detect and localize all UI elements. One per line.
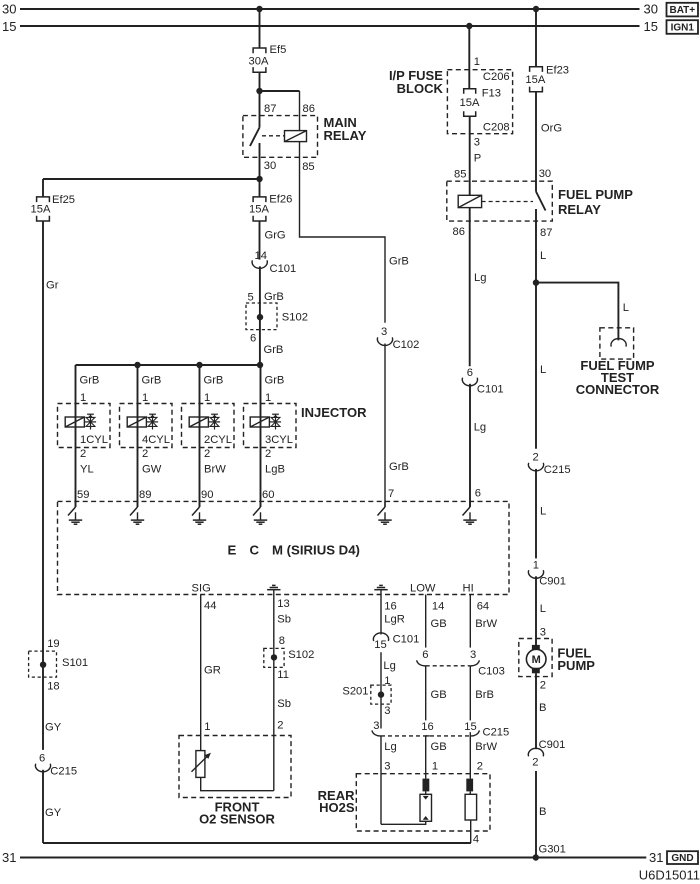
svg-text:59: 59	[77, 489, 89, 501]
main relay coil branch wire	[299, 91, 301, 131]
svg-text:15A: 15A	[525, 74, 545, 86]
svg-text:C101: C101	[477, 383, 504, 395]
svg-text:F13: F13	[482, 87, 501, 99]
svg-text:15A: 15A	[249, 203, 269, 215]
wire to fuse Ef25	[43, 178, 260, 180]
svg-text:1: 1	[142, 392, 148, 404]
wire fuel pump 2 to C901	[535, 673, 537, 749]
svg-text:30: 30	[2, 1, 16, 16]
svg-text:Sb: Sb	[277, 698, 291, 710]
connector C101 pin 6	[462, 378, 477, 386]
wire C215 to rear HO2S (BrW)	[469, 732, 471, 778]
fuse Ef5 30A	[253, 48, 266, 53]
svg-text:1: 1	[80, 392, 86, 404]
injector 3CYL valve	[275, 414, 277, 429]
injector feed bus	[76, 364, 261, 366]
svg-text:3: 3	[474, 136, 480, 148]
svg-text:C103: C103	[478, 666, 505, 678]
wire Ef5 to relay switch	[259, 72, 261, 127]
svg-text:2: 2	[204, 448, 210, 460]
wire relay 30 down	[259, 143, 261, 197]
junction bus15/IP-fuse	[466, 23, 472, 29]
wire C103 to C215 (BrB)	[469, 666, 471, 721]
svg-text:87: 87	[540, 227, 552, 239]
svg-text:15A: 15A	[31, 203, 51, 215]
injector 4CYL drop wire	[137, 365, 139, 507]
svg-text:BrW: BrW	[475, 618, 497, 630]
svg-text:Ef23: Ef23	[546, 65, 569, 77]
injector 1CYL drop wire	[75, 365, 77, 507]
svg-text:U6D15011: U6D15011	[639, 868, 700, 883]
svg-text:L: L	[540, 364, 546, 376]
svg-text:86: 86	[453, 226, 465, 238]
ECM internal ground switch pin 59	[75, 501, 77, 507]
svg-text:GR: GR	[204, 665, 221, 677]
I/P FUSE BLOCK box	[447, 70, 512, 134]
wire C101-15 to S201	[380, 652, 382, 728]
wire Ef25 down to S101	[42, 221, 44, 750]
wire to relay coil pin 86	[260, 90, 300, 92]
svg-text:M (SIRIUS D4): M (SIRIUS D4)	[272, 543, 360, 558]
wire F13 to relay coil	[469, 116, 471, 195]
svg-text:44: 44	[204, 600, 216, 612]
wire relay 87 down	[535, 209, 537, 449]
svg-text:19: 19	[47, 638, 59, 650]
svg-text:PUMP: PUMP	[557, 658, 595, 673]
svg-text:BrW: BrW	[204, 463, 226, 475]
GND tag	[667, 851, 698, 864]
test connector terminal	[611, 339, 626, 347]
injector 4CYL coil	[127, 417, 146, 427]
svg-text:14: 14	[255, 250, 267, 262]
wire ECM 64 to C103	[469, 595, 471, 648]
svg-text:YL: YL	[80, 463, 94, 475]
junction injector 4CYL	[134, 362, 140, 368]
injector 3CYL drop wire	[260, 365, 262, 507]
svg-text:16: 16	[384, 600, 396, 612]
bus 30 (BAT+)	[20, 8, 640, 10]
svg-text:2: 2	[277, 719, 283, 731]
svg-text:RELAY: RELAY	[558, 202, 601, 217]
svg-text:90: 90	[201, 489, 213, 501]
svg-text:87: 87	[264, 103, 276, 115]
svg-text:E: E	[228, 543, 237, 558]
wire relay 85 to C102	[300, 142, 386, 323]
svg-text:P: P	[474, 152, 481, 164]
wire bus30 to fuse Ef5	[259, 9, 261, 48]
svg-text:GrB: GrB	[80, 374, 100, 386]
rear HO2S sensor element	[423, 779, 430, 792]
svg-text:15: 15	[464, 721, 476, 733]
fuel pump relay mech link	[482, 201, 533, 203]
fuel pump relay coil	[458, 195, 481, 207]
svg-text:L: L	[540, 506, 546, 518]
O2 sensor variable resistor	[196, 751, 205, 778]
junction bus30/Ef23	[533, 6, 539, 12]
svg-text:85: 85	[454, 168, 466, 180]
svg-text:L: L	[540, 603, 546, 615]
svg-text:C901: C901	[539, 739, 566, 751]
svg-text:S102: S102	[282, 312, 308, 324]
svg-text:13: 13	[277, 598, 289, 610]
ground G301	[533, 854, 539, 860]
svg-text:G301: G301	[539, 844, 566, 856]
splice S102 lower	[264, 648, 284, 667]
injector 2CYL coil	[189, 417, 208, 427]
svg-text:LgR: LgR	[384, 614, 405, 626]
wire Ef23 to relay switch 30	[535, 92, 537, 192]
svg-text:GrB: GrB	[389, 461, 409, 473]
fuel pump test connector box	[600, 328, 634, 359]
fuse Ef23 15A	[530, 67, 543, 72]
svg-text:Lg: Lg	[474, 272, 486, 284]
svg-text:8: 8	[279, 635, 285, 647]
svg-text:1: 1	[432, 760, 438, 772]
svg-text:LOW: LOW	[410, 582, 436, 594]
svg-text:GY: GY	[45, 807, 62, 819]
svg-text:BLOCK: BLOCK	[397, 81, 444, 96]
splice S101	[29, 651, 57, 677]
ECM internal ground switch pin 90	[199, 501, 201, 507]
svg-text:3: 3	[540, 626, 546, 638]
svg-text:2CYL: 2CYL	[204, 434, 232, 446]
O2 sensor internal wire	[201, 777, 274, 790]
svg-text:GY: GY	[45, 722, 62, 734]
svg-text:C208: C208	[483, 121, 510, 133]
svg-text:LgB: LgB	[265, 463, 285, 475]
wire C215 to C901	[535, 469, 537, 559]
svg-text:Gr: Gr	[46, 280, 59, 292]
main relay box	[243, 116, 318, 158]
svg-text:4CYL: 4CYL	[142, 434, 170, 446]
svg-text:B: B	[539, 806, 546, 818]
svg-text:S201: S201	[342, 685, 368, 697]
svg-text:3: 3	[381, 326, 387, 338]
svg-text:S101: S101	[62, 657, 88, 669]
svg-text:HO2S: HO2S	[319, 800, 355, 815]
svg-text:1: 1	[204, 721, 210, 733]
injector 3CYL coil	[250, 417, 269, 427]
svg-text:1: 1	[474, 56, 480, 68]
rear HO2S internal Lg wire	[381, 821, 426, 824]
svg-text:B: B	[539, 702, 546, 714]
svg-text:Lg: Lg	[383, 660, 395, 672]
ECM internal ground switch pin 60	[260, 501, 262, 507]
svg-text:6: 6	[467, 367, 473, 379]
wire C102 to ECM pin 7	[384, 344, 386, 508]
ECM internal ground pin 13	[272, 584, 276, 586]
svg-text:6: 6	[422, 649, 428, 661]
wire C215 to rear HO2S (Lg)	[380, 736, 382, 824]
IGN1 tag	[667, 20, 699, 34]
wire branch down to Ef25	[42, 179, 44, 197]
wire ECM 14 to C103	[425, 595, 427, 648]
svg-text:GrB: GrB	[389, 256, 409, 268]
injector 2CYL box	[182, 404, 235, 448]
svg-text:BrW: BrW	[475, 741, 497, 753]
svg-text:C901: C901	[539, 575, 566, 587]
svg-text:GrG: GrG	[265, 230, 286, 242]
wire bus30 to fuse Ef23	[535, 9, 537, 67]
junction Ef25 branch	[256, 176, 262, 182]
svg-text:3: 3	[384, 760, 390, 772]
svg-text:5: 5	[248, 292, 254, 304]
svg-text:GB: GB	[431, 741, 447, 753]
wire C215 to bottom	[42, 770, 44, 843]
svg-text:7: 7	[388, 488, 394, 500]
ECM box	[58, 501, 510, 594]
svg-text:2: 2	[532, 756, 538, 768]
svg-text:GrB: GrB	[204, 374, 224, 386]
svg-text:C101: C101	[270, 263, 297, 275]
wire C101 to injector bus	[259, 266, 261, 365]
svg-text:IGN1: IGN1	[671, 22, 695, 33]
svg-text:C101: C101	[393, 634, 420, 646]
svg-text:GrB: GrB	[264, 344, 284, 356]
svg-text:Ef25: Ef25	[52, 194, 75, 206]
bus 15 (IGN1)	[20, 25, 640, 27]
BAT+ tag	[667, 3, 699, 17]
ECM internal ground switch pin 89	[137, 501, 139, 507]
svg-text:1: 1	[265, 392, 271, 404]
svg-text:3: 3	[384, 705, 390, 717]
svg-text:30: 30	[264, 160, 276, 172]
main relay switch blade	[250, 128, 260, 147]
svg-text:60: 60	[262, 489, 274, 501]
svg-text:89: 89	[139, 489, 151, 501]
svg-text:L: L	[623, 302, 629, 314]
svg-text:15: 15	[2, 19, 16, 34]
svg-text:2: 2	[477, 760, 483, 772]
svg-text:2: 2	[533, 452, 539, 464]
svg-text:GrB: GrB	[264, 291, 284, 303]
wire ECM 13 to O2 pin 2	[273, 595, 275, 791]
svg-text:1: 1	[204, 392, 210, 404]
svg-text:C: C	[250, 543, 260, 558]
wire SIG 44 to O2 sensor	[200, 595, 202, 751]
rear HO2S box	[356, 774, 490, 831]
svg-text:2: 2	[80, 448, 86, 460]
svg-text:SIG: SIG	[192, 583, 211, 595]
svg-text:15A: 15A	[460, 97, 480, 109]
svg-text:Ef26: Ef26	[269, 193, 292, 205]
ECM internal ground switch pin 6	[469, 501, 471, 507]
svg-text:L: L	[540, 250, 546, 262]
svg-text:85: 85	[302, 161, 314, 173]
fuel pump relay switch blade	[536, 192, 546, 211]
injector 4CYL valve	[152, 414, 154, 429]
svg-text:6: 6	[39, 752, 45, 764]
injector 3CYL box	[244, 404, 297, 448]
injector 2CYL valve	[214, 414, 216, 429]
svg-text:1: 1	[533, 559, 539, 571]
injector 2CYL drop wire	[199, 365, 201, 507]
svg-text:C102: C102	[393, 339, 420, 351]
front O2 sensor box	[179, 736, 291, 798]
svg-text:Sb: Sb	[277, 614, 291, 626]
wire C901 to fuel pump	[535, 576, 537, 646]
main relay mech link	[262, 135, 284, 137]
connector C101 pin 14	[252, 260, 267, 268]
svg-text:3: 3	[373, 720, 379, 732]
svg-text:3: 3	[470, 649, 476, 661]
junction injector 2CYL	[196, 362, 202, 368]
svg-text:4: 4	[473, 834, 479, 846]
wire ECM 16 to C101	[380, 595, 382, 635]
wire C901 to G301	[535, 771, 537, 858]
injector 1CYL valve	[90, 414, 92, 429]
main relay coil	[285, 131, 307, 142]
svg-text:86: 86	[303, 103, 315, 115]
svg-text:30A: 30A	[249, 56, 269, 68]
junction injector 3CYL	[257, 362, 263, 368]
svg-text:GrB: GrB	[142, 374, 162, 386]
svg-text:GrB: GrB	[265, 374, 285, 386]
svg-text:C206: C206	[483, 71, 510, 83]
svg-text:30: 30	[644, 1, 658, 16]
svg-text:HI: HI	[463, 582, 474, 594]
svg-text:14: 14	[432, 600, 444, 612]
bus 31 (GND)	[20, 857, 646, 859]
wire bus15 to I/P fuse	[468, 26, 470, 89]
svg-text:C215: C215	[50, 766, 77, 778]
splice S201	[371, 685, 391, 704]
fuse Ef26 15A	[253, 197, 266, 202]
svg-text:RELAY: RELAY	[324, 128, 367, 143]
wire coil 86 down to C101	[469, 208, 471, 367]
wire Ef26 to C101	[259, 221, 261, 260]
svg-text:C215: C215	[544, 464, 571, 476]
svg-text:2: 2	[540, 679, 546, 691]
ECM internal ground pin 16	[379, 584, 383, 586]
wire C103 to C215 (GB)	[425, 666, 427, 721]
injector 4CYL box	[120, 404, 173, 448]
svg-text:2: 2	[265, 448, 271, 460]
svg-text:1CYL: 1CYL	[80, 434, 108, 446]
svg-text:M: M	[532, 654, 541, 666]
svg-text:C215: C215	[483, 726, 510, 738]
svg-text:31: 31	[649, 850, 663, 865]
fuel pump relay box	[447, 181, 553, 221]
svg-text:30: 30	[539, 168, 551, 180]
svg-text:GW: GW	[142, 463, 162, 475]
injector 1CYL coil	[65, 417, 84, 427]
svg-text:OrG: OrG	[541, 122, 562, 134]
svg-text:31: 31	[2, 850, 16, 865]
svg-text:2: 2	[142, 448, 148, 460]
svg-text:FUEL PUMP: FUEL PUMP	[558, 187, 633, 202]
svg-text:Lg: Lg	[474, 422, 486, 434]
junction bus30/Ef5	[256, 6, 262, 12]
svg-text:GB: GB	[431, 618, 447, 630]
svg-text:GB: GB	[431, 689, 447, 701]
svg-text:11: 11	[277, 669, 289, 681]
svg-text:15: 15	[374, 639, 386, 651]
connector C901 pin 1	[528, 570, 543, 578]
rear HO2S heater element	[466, 779, 473, 792]
GY return wire to rear HO2S pin 4	[43, 842, 471, 844]
svg-text:Ef5: Ef5	[270, 44, 287, 56]
svg-text:BAT+: BAT+	[669, 5, 695, 16]
injector 1CYL box	[58, 404, 111, 448]
svg-text:S102: S102	[288, 649, 314, 661]
svg-text:6: 6	[250, 333, 256, 345]
svg-text:Lg: Lg	[384, 741, 396, 753]
svg-text:64: 64	[477, 600, 489, 612]
fuel pump motor	[532, 645, 540, 651]
fuel pump box	[519, 639, 552, 677]
svg-text:18: 18	[47, 681, 59, 693]
connector C102 pin 3	[377, 337, 392, 345]
svg-text:GND: GND	[671, 853, 693, 864]
connector C215 pin 2	[528, 463, 543, 471]
wire C215 to rear HO2S (GB)	[425, 736, 427, 779]
fuse Ef25 15A	[37, 197, 50, 202]
ECM internal ground switch pin 7	[384, 501, 386, 507]
junction test connector branch	[533, 279, 539, 285]
fuse F13 15A	[464, 89, 476, 94]
svg-text:3CYL: 3CYL	[265, 434, 293, 446]
connector C101 pin 15	[373, 633, 388, 641]
splice S102	[246, 303, 277, 330]
junction relay 87/86 branch	[256, 88, 262, 94]
svg-text:15: 15	[644, 19, 658, 34]
wire heater to pin 4	[470, 820, 472, 843]
wire C101 to ECM pin 6	[469, 384, 471, 507]
svg-text:CONNECTOR: CONNECTOR	[576, 382, 660, 397]
svg-text:INJECTOR: INJECTOR	[301, 405, 367, 420]
svg-text:6: 6	[475, 487, 481, 499]
svg-text:16: 16	[421, 721, 433, 733]
branch to fuel pump test connector	[536, 283, 618, 341]
svg-text:O2 SENSOR: O2 SENSOR	[199, 811, 275, 826]
connector C215 pin 6 (left)	[35, 764, 50, 772]
svg-text:BrB: BrB	[475, 689, 494, 701]
